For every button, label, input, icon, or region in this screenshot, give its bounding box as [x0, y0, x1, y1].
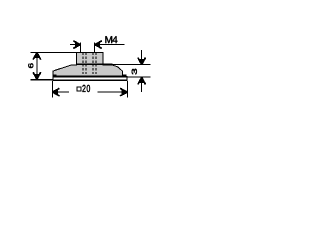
- dimension 3: dimension line below + outside arrow pointing up: [141, 78, 143, 93]
- dimension 20: square symbol: [77, 87, 81, 91]
- dimension 3: dimension line above + outside arrow pointing down: [141, 50, 143, 65]
- dimension 20: dimension line with gap for text: [52, 91, 69, 93]
- M4 dimension line left with inward arrow: [70, 44, 81, 46]
- dimension 20: text: [82, 85, 85, 92]
- M4 label digit 4: [112, 36, 117, 43]
- M4 extension line right: [94, 42, 96, 52]
- foot body (grey silhouette: boss + cone + skirt): [53, 52, 123, 76]
- M4 dimension line right with inward arrow: [95, 44, 125, 46]
- dimension 3: extension line top (cone rim line, continues from cone top): [113, 64, 151, 66]
- thread hidden lines (M4 tapped hole), dashed: [83, 53, 96, 74]
- dimension 20: extension line left: [51, 81, 53, 98]
- dimension 6: extension line top (merges with stud top): [30, 51, 76, 53]
- dimension 20: arrowhead left: [52, 88, 60, 96]
- dimension 20: extension line right: [126, 81, 128, 98]
- dimension 6: text: [28, 63, 33, 68]
- dimension 6: arrowhead up: [33, 52, 41, 60]
- dimension 3: text: [132, 69, 137, 75]
- base plate (white with thick top/bottom lines): [52, 76, 127, 81]
- corner bead right: [122, 74, 126, 76]
- dimension 3: extension line bottom (plate top line extended): [127, 76, 150, 78]
- thick boss-base line (cone top edge): [77, 63, 113, 65]
- dimension 6: arrowhead down: [33, 72, 41, 80]
- dimension 6: extension line bottom: [30, 79, 52, 81]
- dimension 20: digit 0: [87, 85, 90, 92]
- dimension 6: dimension line: [36, 52, 38, 79]
- M4 extension line left: [80, 42, 82, 52]
- dimension 20: arrowhead right: [120, 88, 128, 96]
- corner bead left (rubber lip at plate corner): [52, 74, 56, 76]
- M4 label: [105, 36, 112, 43]
